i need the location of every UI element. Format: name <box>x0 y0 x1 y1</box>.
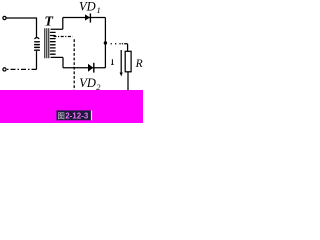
svg-text:1: 1 <box>97 5 101 15</box>
svg-text:VD: VD <box>79 76 96 90</box>
svg-text:T: T <box>44 14 54 29</box>
svg-text:VD: VD <box>79 0 96 13</box>
svg-text:2-12-3: 2-12-3 <box>65 111 89 120</box>
svg-text:2: 2 <box>96 82 101 92</box>
svg-text:图: 图 <box>57 111 65 120</box>
svg-text:R: R <box>135 58 143 70</box>
